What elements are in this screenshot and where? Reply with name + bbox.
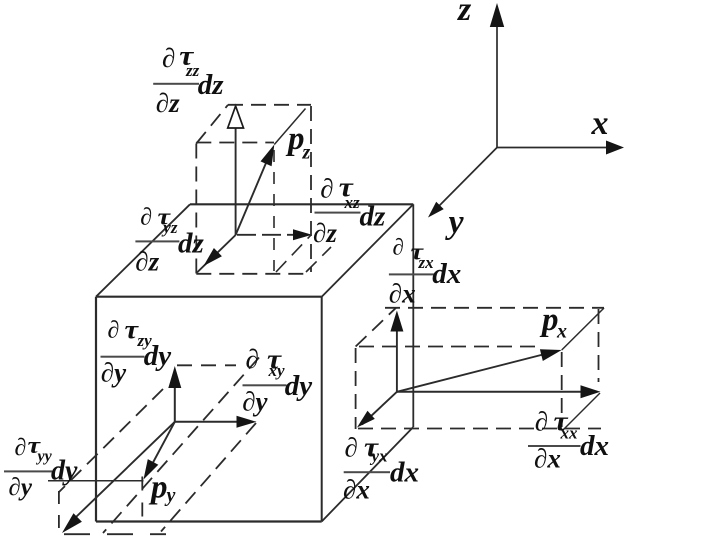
svg-text:∂: ∂: [345, 433, 358, 463]
svg-text:∂y: ∂y: [101, 358, 127, 388]
svg-text:∂z: ∂z: [313, 218, 337, 248]
svg-text:∂z: ∂z: [135, 247, 159, 277]
svg-text:dz: dz: [198, 69, 225, 101]
svg-text:∂: ∂: [246, 344, 259, 374]
svg-text:∂y: ∂y: [9, 474, 33, 501]
svg-text:dz: dz: [178, 228, 205, 260]
svg-text:p: p: [148, 470, 168, 506]
svg-text:∂z: ∂z: [156, 88, 180, 118]
svg-text:∂: ∂: [140, 204, 152, 230]
svg-text:dx: dx: [432, 258, 461, 290]
svg-text:∂x: ∂x: [389, 279, 416, 309]
svg-text:x: x: [591, 105, 609, 142]
svg-text:y: y: [165, 485, 176, 507]
svg-text:p: p: [539, 302, 559, 338]
svg-text:dy: dy: [144, 340, 172, 372]
svg-text:∂: ∂: [535, 407, 548, 437]
svg-text:z: z: [302, 142, 311, 164]
svg-text:z: z: [457, 0, 472, 28]
svg-text:dx: dx: [580, 430, 609, 462]
svg-text:∂x: ∂x: [343, 475, 370, 505]
svg-text:dx: dx: [390, 456, 419, 488]
svg-text:dy: dy: [51, 456, 78, 487]
svg-text:dz: dz: [360, 200, 387, 232]
svg-text:x: x: [556, 321, 567, 343]
svg-text:∂y: ∂y: [242, 387, 268, 417]
svg-text:dy: dy: [285, 370, 313, 402]
svg-text:∂x: ∂x: [534, 444, 561, 474]
svg-text:∂: ∂: [320, 174, 333, 204]
svg-text:∂: ∂: [108, 318, 120, 344]
svg-text:∂: ∂: [162, 43, 175, 73]
svg-text:yz: yz: [161, 218, 178, 237]
svg-text:xx: xx: [560, 424, 579, 443]
svg-text:xz: xz: [344, 193, 361, 212]
svg-text:∂: ∂: [393, 235, 404, 260]
svg-text:xy: xy: [268, 361, 286, 380]
svg-text:∂: ∂: [15, 435, 27, 461]
svg-text:yx: yx: [370, 447, 389, 466]
